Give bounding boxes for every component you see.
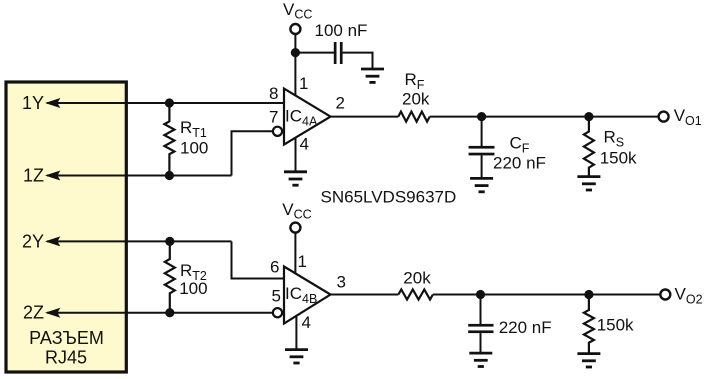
svg-text:1: 1 [298, 252, 307, 271]
resistor RT1 [164, 103, 174, 176]
ground (IC4A pin 4) [284, 172, 307, 185]
arrow into 1Z [45, 171, 60, 181]
terminal VO2 [660, 290, 670, 300]
wire pin 4 (IC4B) to ground [295, 315, 297, 350]
resistor 150k (ch2) [584, 295, 594, 354]
wire down to CF [481, 117, 483, 146]
arrow into 2Y [45, 236, 60, 246]
wire output pin 2 to RF [331, 116, 399, 118]
svg-text:150k: 150k [597, 316, 634, 335]
wire cap to ground (ch2) [480, 333, 482, 353]
svg-text:2Z: 2Z [23, 303, 44, 323]
svg-text:РАЗЪЕМ: РАЗЪЕМ [29, 328, 104, 348]
capacitor 100 nF [334, 42, 343, 64]
resistor RT2 [165, 241, 175, 312]
svg-text:20k: 20k [403, 269, 431, 288]
svg-text:5: 5 [272, 287, 281, 306]
svg-text:7: 7 [269, 108, 278, 127]
ground (bypass cap) [361, 69, 384, 82]
ground (CF) [470, 178, 493, 191]
wire CF to ground [481, 155, 483, 178]
junction res node (ch2) [584, 290, 593, 299]
wire 2Z to pin 5 [47, 312, 273, 314]
wire VCC2 to pin 1 [294, 233, 296, 274]
svg-text:4: 4 [300, 135, 309, 154]
capacitor 220 nF (ch2) [468, 324, 493, 333]
op-amp U2 IC4B [284, 267, 331, 324]
svg-text:4: 4 [302, 313, 311, 332]
ground (cap ch2) [469, 353, 492, 366]
junction VCC / bypass cap [291, 48, 300, 57]
arrow into 2Z [45, 308, 60, 318]
pin 5 bubble [273, 308, 282, 317]
op-amp U1 IC4A [284, 89, 331, 145]
svg-text:100: 100 [179, 279, 207, 298]
svg-text:100: 100 [180, 138, 208, 157]
capacitor CF [469, 146, 495, 156]
wire jog up to pin 7 [232, 131, 274, 175]
svg-text:8: 8 [269, 84, 278, 103]
wire 1Z to jog corner [47, 175, 232, 177]
junction 2Y / RT2 [165, 237, 174, 246]
wire jog down to pin 6 [232, 241, 285, 278]
svg-text:1Y: 1Y [22, 93, 44, 113]
VCC terminal 1 [290, 24, 300, 34]
wire down to cap (ch2) [480, 295, 482, 325]
junction 1Z / RT1 [165, 171, 174, 180]
wire RF to VO1 [430, 116, 659, 118]
wire 20k to VO2 [433, 294, 660, 296]
junction CF node [477, 112, 486, 121]
svg-text:220 nF: 220 nF [493, 154, 546, 173]
svg-text:2: 2 [336, 94, 345, 113]
svg-text:100 nF: 100 nF [315, 21, 368, 40]
resistor RS [584, 117, 594, 177]
wire 1Y to pin 8 [47, 102, 284, 104]
connector box RJ45 [6, 82, 126, 372]
svg-text:6: 6 [270, 258, 279, 277]
junction 1Y / RT1 [165, 98, 174, 107]
resistor RF [398, 112, 429, 122]
junction RS node [584, 112, 593, 121]
svg-text:3: 3 [337, 273, 346, 292]
wire pin 4 to ground [295, 138, 297, 172]
svg-text:1Z: 1Z [23, 165, 44, 185]
terminal VO1 [659, 112, 669, 122]
arrow into 1Y [45, 98, 60, 108]
wire cap to ground [343, 53, 373, 69]
ground (RS) [577, 177, 600, 190]
wire output pin 3 to 20k [331, 294, 399, 296]
svg-text:RJ45: RJ45 [45, 348, 87, 368]
svg-text:1: 1 [299, 74, 308, 93]
junction cap node (ch2) [476, 290, 485, 299]
ground (IC4B pin 4) [285, 350, 308, 363]
resistor 20k (ch2) [398, 290, 433, 300]
VCC terminal 2 [290, 223, 300, 233]
svg-text:20k: 20k [402, 89, 430, 108]
ground (150k ch2) [577, 354, 600, 367]
svg-text:2Y: 2Y [22, 232, 44, 252]
wire to bypass cap [295, 52, 334, 54]
svg-text:220 nF: 220 nF [499, 318, 552, 337]
svg-text:SN65LVDS9637D: SN65LVDS9637D [321, 188, 457, 207]
wire VCC to pin 1 [294, 34, 296, 96]
svg-text:150k: 150k [600, 149, 637, 168]
junction 2Z / RT2 [165, 308, 174, 317]
pin 7 bubble [273, 127, 282, 136]
wire 2Y to jog corner [47, 240, 232, 242]
